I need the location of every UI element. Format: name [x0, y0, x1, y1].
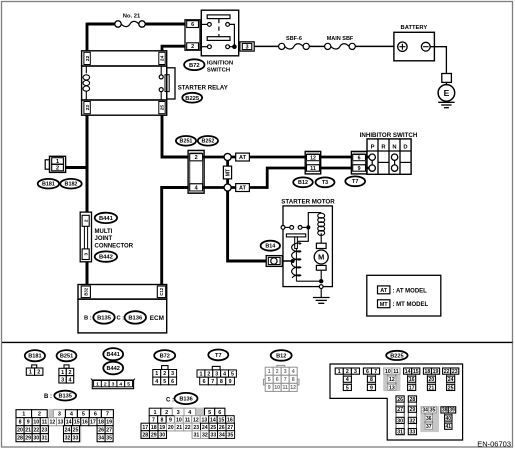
AT tag top	[236, 153, 250, 161]
label B181 (view)	[25, 350, 45, 361]
connector view B12	[263, 365, 299, 391]
label B442 (view)	[103, 362, 123, 375]
svg-text:10: 10	[176, 417, 182, 423]
wire from fuse down to starter relay pin 22	[86, 23, 89, 51]
svg-text:25: 25	[448, 385, 454, 391]
svg-text:32: 32	[202, 432, 208, 438]
wire MT branch vertical	[226, 157, 229, 188]
fuse No. 21	[115, 14, 145, 28]
svg-text:11: 11	[393, 369, 399, 375]
svg-text:2: 2	[163, 371, 166, 377]
svg-text:21: 21	[429, 385, 435, 391]
svg-text:25: 25	[73, 428, 79, 434]
svg-text:26: 26	[397, 397, 403, 403]
svg-text:15: 15	[413, 369, 419, 375]
wire ignition pin3 to SBF-6	[254, 45, 278, 47]
svg-text:39: 39	[449, 408, 455, 414]
svg-text:1: 1	[29, 370, 32, 376]
svg-text:B :: B :	[44, 394, 52, 400]
svg-text:2: 2	[83, 219, 89, 222]
svg-text:35: 35	[106, 436, 112, 442]
svg-text:B136: B136	[128, 315, 143, 321]
svg-text:8: 8	[161, 417, 164, 423]
svg-text:M: M	[318, 253, 324, 262]
svg-text:2: 2	[276, 369, 279, 375]
multi joint connector B441/B442	[80, 212, 91, 262]
wire SBF-6 to MAIN SBF	[309, 45, 324, 47]
svg-text:9: 9	[27, 420, 30, 426]
svg-text:4: 4	[155, 379, 158, 385]
svg-text:37: 37	[426, 424, 432, 430]
fuse SBF-6	[279, 36, 310, 49]
svg-text:11: 11	[185, 417, 191, 423]
connector view B135 grid	[16, 409, 113, 443]
svg-text:MULTI: MULTI	[95, 229, 113, 235]
svg-text:3: 3	[215, 371, 218, 377]
svg-text:AT: AT	[380, 288, 388, 294]
connector view B251	[59, 365, 74, 383]
svg-text:7: 7	[106, 412, 109, 418]
svg-text:12: 12	[193, 417, 199, 423]
labels B181 B182	[38, 179, 82, 189]
label B72 (view)	[154, 350, 175, 361]
svg-text:9: 9	[370, 385, 373, 391]
svg-text:24: 24	[202, 425, 208, 431]
svg-text:11: 11	[282, 385, 288, 391]
svg-text:5: 5	[82, 412, 85, 418]
svg-text:22: 22	[85, 55, 91, 61]
svg-text:33: 33	[410, 429, 416, 435]
label starter relay B225	[178, 84, 228, 102]
svg-text:2: 2	[56, 166, 59, 172]
svg-text:CONNECTOR: CONNECTOR	[95, 244, 134, 250]
svg-text:11: 11	[42, 420, 48, 426]
svg-text:B14: B14	[265, 244, 275, 250]
fuse MAIN SBF	[325, 36, 356, 49]
svg-text:23: 23	[85, 105, 91, 111]
connector view B72	[153, 366, 177, 385]
svg-text:3: 3	[177, 410, 180, 416]
svg-text:28: 28	[410, 397, 416, 403]
svg-text:29: 29	[151, 432, 157, 438]
svg-text:14: 14	[66, 420, 72, 426]
svg-text:34: 34	[219, 432, 225, 438]
svg-text:24: 24	[65, 428, 71, 434]
svg-text:2: 2	[104, 381, 107, 387]
svg-text:6: 6	[366, 369, 369, 375]
svg-text:25: 25	[160, 105, 166, 111]
svg-text:35: 35	[227, 432, 233, 438]
svg-text:13: 13	[58, 420, 64, 426]
svg-text:35: 35	[430, 408, 436, 414]
svg-text:28: 28	[17, 436, 23, 442]
svg-text:1: 1	[338, 369, 341, 375]
connector view B225 cells	[335, 367, 459, 435]
connector view B136 grid	[141, 408, 235, 439]
svg-text:30: 30	[159, 432, 165, 438]
svg-text:1: 1	[61, 370, 64, 376]
svg-text:10: 10	[274, 385, 280, 391]
legend box AT/MT models	[367, 275, 441, 316]
svg-text:8: 8	[292, 377, 295, 383]
svg-text:36: 36	[426, 416, 432, 422]
svg-text:20: 20	[429, 377, 435, 383]
wire step up to inhibitor pin 11	[267, 168, 306, 189]
svg-text:21: 21	[25, 428, 31, 434]
wire from starter relay pin 24 to ignition switch pin 2	[162, 46, 186, 51]
svg-text:B181: B181	[42, 182, 55, 188]
ignition switch B72	[201, 10, 238, 56]
svg-text:34: 34	[98, 436, 104, 442]
svg-text:P: P	[371, 144, 375, 150]
svg-text:19: 19	[433, 369, 439, 375]
svg-text:B136: B136	[179, 397, 192, 403]
ground symbol battery	[438, 102, 454, 107]
wire battery negative to ground connector	[430, 47, 446, 74]
svg-text:5: 5	[127, 381, 130, 387]
svg-text:5: 5	[163, 379, 166, 385]
svg-text:3: 3	[61, 377, 64, 383]
svg-text:41: 41	[446, 424, 452, 430]
svg-text:40: 40	[446, 416, 452, 422]
svg-text:SBF-6: SBF-6	[286, 36, 302, 42]
svg-text:31: 31	[193, 432, 199, 438]
svg-text:2: 2	[195, 155, 198, 161]
svg-text:22: 22	[185, 425, 191, 431]
svg-text:5: 5	[346, 385, 349, 391]
svg-text:6: 6	[276, 377, 279, 383]
svg-text:33: 33	[73, 436, 79, 442]
svg-text:18: 18	[98, 420, 104, 426]
svg-text:B182: B182	[65, 182, 78, 188]
connector T7 pins 6,9	[351, 151, 366, 174]
svg-text:: AT MODEL: : AT MODEL	[393, 288, 428, 294]
plunger T bar	[286, 234, 305, 249]
svg-text:D: D	[403, 144, 407, 150]
svg-text:B72: B72	[160, 354, 170, 360]
svg-text:B :: B :	[84, 316, 92, 322]
svg-text:15: 15	[74, 420, 80, 426]
svg-text:22: 22	[33, 428, 39, 434]
wire motor to ground node	[320, 270, 322, 281]
svg-text:2: 2	[346, 369, 349, 375]
starter motor ground terminal	[319, 285, 323, 298]
starter motor	[281, 199, 335, 287]
svg-text:1: 1	[22, 412, 25, 418]
svg-text:ECM: ECM	[150, 315, 164, 322]
svg-text:13: 13	[202, 417, 208, 423]
ECM body with labels B135 C B136	[78, 299, 167, 333]
svg-text:B442: B442	[107, 366, 120, 372]
pin 3 box of ignition switch	[240, 42, 254, 51]
svg-text:8: 8	[19, 420, 22, 426]
MT tag	[223, 166, 231, 179]
svg-text:1: 1	[155, 371, 158, 377]
svg-text:MT: MT	[225, 168, 231, 176]
svg-text:: MT MODEL: : MT MODEL	[393, 302, 429, 308]
svg-text:B72: B72	[189, 63, 200, 69]
svg-text:C :: C :	[117, 316, 125, 322]
svg-text:B251: B251	[60, 354, 73, 360]
svg-text:32: 32	[410, 418, 416, 424]
svg-text:5: 5	[268, 377, 271, 383]
svg-text:7: 7	[284, 377, 287, 383]
svg-text:7: 7	[152, 417, 155, 423]
svg-text:3: 3	[246, 44, 249, 50]
wire starter relay pin 25 down to connector B251 pin 2	[162, 115, 189, 157]
svg-text:20: 20	[17, 428, 23, 434]
svg-text:T3: T3	[322, 180, 328, 186]
svg-text:10: 10	[33, 420, 39, 426]
svg-text:6: 6	[203, 379, 206, 385]
svg-text:9: 9	[268, 385, 271, 391]
labels B12 T3	[293, 177, 334, 187]
svg-text:19: 19	[159, 425, 165, 431]
svg-text:EN-06703: EN-06703	[477, 440, 511, 449]
connector view B181	[26, 365, 43, 376]
wire ECM right pin up to connector B251 pin 4	[162, 188, 189, 286]
svg-text:3: 3	[112, 381, 115, 387]
svg-text:1: 1	[268, 369, 271, 375]
connector view B441/B442 strip	[91, 379, 135, 389]
svg-text:31: 31	[397, 429, 403, 435]
svg-text:2: 2	[191, 44, 194, 50]
svg-text:B441: B441	[107, 352, 120, 358]
svg-text:4: 4	[119, 381, 122, 387]
svg-text:6: 6	[191, 22, 194, 28]
svg-text:13: 13	[389, 385, 395, 391]
svg-text:30: 30	[397, 418, 403, 424]
svg-text:6: 6	[171, 379, 174, 385]
svg-text:B252: B252	[201, 139, 214, 145]
svg-text:9: 9	[358, 166, 361, 172]
svg-text:14: 14	[405, 369, 411, 375]
wire B251 pin4 toward starter motor / inhibitor (row 2)	[203, 186, 268, 189]
svg-text:4: 4	[292, 369, 295, 375]
label T7	[345, 176, 365, 186]
svg-text:27: 27	[227, 425, 233, 431]
connector B14	[266, 256, 282, 267]
wire solenoid bottom to junction	[296, 280, 321, 282]
wire fuse No.21 branch	[87, 23, 186, 26]
svg-text:12: 12	[290, 385, 296, 391]
svg-text:3: 3	[83, 253, 89, 256]
svg-text:6: 6	[94, 412, 97, 418]
svg-text:17: 17	[409, 385, 415, 391]
labels B251 B252	[176, 136, 218, 146]
svg-text:2: 2	[68, 370, 71, 376]
svg-text:26: 26	[98, 428, 104, 434]
svg-text:JOINT: JOINT	[95, 236, 113, 242]
field coil windings	[318, 213, 325, 235]
svg-text:B251: B251	[180, 139, 193, 145]
svg-text:38: 38	[442, 408, 448, 414]
svg-text:8: 8	[220, 379, 223, 385]
svg-text:24: 24	[160, 55, 166, 61]
svg-text:5: 5	[208, 410, 211, 416]
label B225 (view)	[386, 351, 407, 360]
svg-text:B441: B441	[99, 216, 114, 222]
svg-text:BATTERY: BATTERY	[401, 25, 428, 31]
wire B251 pin2 to inhibitor switch (AT row 1)	[203, 156, 306, 159]
svg-text:INHIBITOR SWITCH: INHIBITOR SWITCH	[360, 132, 418, 139]
svg-text:B12: B12	[298, 180, 308, 186]
connector B181/B182 pins 1,2	[45, 156, 65, 172]
inhibitor switch	[360, 132, 418, 174]
label B12 (view)	[271, 350, 292, 361]
motor M	[314, 243, 328, 270]
svg-text:29: 29	[25, 436, 31, 442]
figure number EN-06703	[477, 440, 511, 449]
svg-text:16: 16	[227, 417, 233, 423]
svg-text:23: 23	[41, 428, 47, 434]
svg-text:3: 3	[58, 412, 61, 418]
wire starter relay pin 23 down to ECM (left trunk)	[86, 115, 89, 285]
svg-text:2: 2	[207, 371, 210, 377]
label B251 (view)	[57, 350, 77, 361]
svg-text:17: 17	[142, 425, 148, 431]
svg-text:33: 33	[210, 432, 216, 438]
connector B251/B252 pins 2,4	[188, 150, 204, 193]
svg-text:1: 1	[153, 410, 156, 416]
svg-text:16: 16	[409, 377, 415, 383]
labels B441 B442 multi joint connector	[95, 213, 134, 262]
svg-text:20: 20	[168, 425, 174, 431]
svg-text:14: 14	[210, 417, 216, 423]
svg-text:STARTER MOTOR: STARTER MOTOR	[281, 199, 335, 206]
svg-text:B181: B181	[28, 354, 41, 360]
svg-text:17: 17	[90, 420, 96, 426]
svg-text:8: 8	[370, 377, 373, 383]
wire contact to field coil	[308, 213, 321, 228]
svg-text:28: 28	[142, 432, 148, 438]
wires between B12/T3 and T7	[321, 157, 352, 168]
svg-text:B135: B135	[59, 394, 72, 400]
svg-text:C12: C12	[159, 287, 164, 295]
svg-text:1: 1	[199, 371, 202, 377]
label C: B136	[166, 393, 198, 404]
svg-text:18: 18	[425, 369, 431, 375]
svg-text:10: 10	[385, 369, 391, 375]
svg-text:B12: B12	[276, 353, 286, 359]
svg-text:SWITCH: SWITCH	[207, 67, 230, 73]
svg-text:23: 23	[452, 369, 458, 375]
svg-text:9: 9	[229, 379, 232, 385]
label B441 (view)	[103, 348, 123, 360]
svg-text:2: 2	[37, 370, 40, 376]
svg-text:3: 3	[354, 369, 357, 375]
svg-text:22: 22	[444, 369, 450, 375]
separator line between diagram and connector views	[2, 341, 513, 343]
svg-text:34: 34	[422, 408, 428, 414]
connector view B225 outline	[330, 364, 463, 440]
label B72 ignition switch	[184, 59, 233, 73]
svg-text:9: 9	[169, 417, 172, 423]
wire MT branch down to starter motor B14	[228, 188, 267, 262]
svg-text:7: 7	[211, 379, 214, 385]
svg-text:21: 21	[176, 425, 182, 431]
node junction circle bottom	[224, 184, 231, 191]
AT tag bottom	[236, 184, 250, 192]
svg-text:B32: B32	[83, 287, 88, 295]
svg-text:11: 11	[310, 166, 316, 172]
svg-text:N: N	[392, 144, 396, 150]
svg-text:3: 3	[284, 369, 287, 375]
label T7 (view)	[208, 350, 228, 361]
svg-text:15: 15	[219, 417, 225, 423]
connector block B72 pins 6 and 2	[185, 20, 200, 50]
svg-text:31: 31	[41, 436, 47, 442]
junction dot at B14 wire and coil	[291, 259, 295, 263]
node junction circle top	[224, 153, 231, 160]
svg-text:No. 21: No. 21	[123, 14, 141, 20]
svg-text:3: 3	[171, 371, 174, 377]
svg-text:7: 7	[374, 369, 377, 375]
svg-text:29: 29	[410, 407, 416, 413]
ground connector box	[442, 74, 452, 83]
svg-text:MT: MT	[380, 302, 389, 308]
wire contact dot to solenoid coil top	[298, 229, 308, 241]
svg-text:6: 6	[218, 410, 221, 416]
wire B181 pin2 to left trunk	[66, 166, 88, 169]
svg-text:2: 2	[165, 410, 168, 416]
svg-text:18: 18	[151, 425, 157, 431]
svg-text:24: 24	[448, 377, 454, 383]
svg-text:B225: B225	[185, 96, 200, 102]
svg-text:B135: B135	[97, 315, 112, 321]
svg-text:32: 32	[65, 436, 71, 442]
svg-text:E: E	[444, 88, 450, 98]
svg-text:27: 27	[397, 407, 403, 413]
svg-text:12: 12	[50, 420, 56, 426]
wire B14 connector into starter motor	[282, 260, 292, 262]
starter relay B225	[82, 51, 175, 115]
svg-text:AT: AT	[239, 186, 247, 192]
connector view T7	[197, 366, 236, 385]
battery	[394, 25, 435, 61]
svg-text:B225: B225	[390, 353, 403, 359]
wire MAIN SBF to battery	[355, 45, 394, 47]
svg-text:T7: T7	[215, 353, 222, 359]
svg-text:16: 16	[82, 420, 88, 426]
svg-text:AT: AT	[239, 155, 247, 161]
svg-text:5: 5	[231, 371, 234, 377]
svg-text:4: 4	[346, 377, 349, 383]
svg-text:IGNITION: IGNITION	[207, 61, 233, 67]
ground terminal E	[438, 82, 455, 101]
svg-text:19: 19	[106, 420, 112, 426]
wires T7 to inhibitor switch	[367, 157, 370, 168]
svg-text:27: 27	[106, 428, 112, 434]
label B14	[261, 241, 280, 251]
svg-text:26: 26	[219, 425, 225, 431]
svg-text:B442: B442	[99, 255, 113, 261]
solenoid pull-in coil	[292, 243, 301, 281]
svg-text:1: 1	[96, 381, 99, 387]
svg-text:STARTER RELAY: STARTER RELAY	[178, 84, 228, 91]
svg-text:4: 4	[223, 371, 226, 377]
ECM connector strip	[78, 285, 167, 300]
starter motor contacts	[281, 225, 310, 229]
svg-text:C :: C :	[166, 398, 174, 404]
label B: B135	[44, 391, 76, 401]
ground symbol starter motor	[313, 298, 330, 304]
svg-text:MAIN SBF: MAIN SBF	[327, 36, 354, 42]
svg-text:12: 12	[389, 377, 395, 383]
svg-text:30: 30	[33, 436, 39, 442]
svg-text:25: 25	[210, 425, 216, 431]
wire coil to motor	[320, 233, 322, 243]
